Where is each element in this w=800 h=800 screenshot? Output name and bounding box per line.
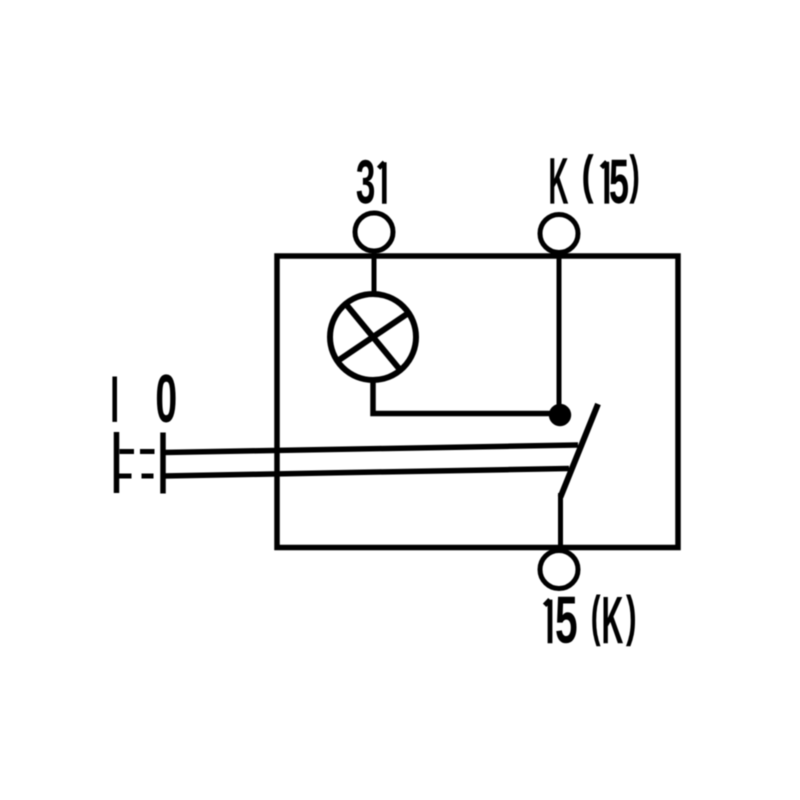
dashed link upper row dash 1 <box>120 449 135 454</box>
terminal 15 (K) <box>540 551 578 589</box>
switch body outline (box) <box>277 256 678 548</box>
terminal 31 <box>355 213 393 251</box>
dashed link lower row dash 1 <box>118 474 132 479</box>
dashed link lower row dash 2 <box>142 474 154 479</box>
dashed link upper row dash 2 <box>140 449 155 454</box>
switch blade <box>561 404 599 497</box>
lamp cross stroke A <box>345 303 400 370</box>
actuator label I <box>112 377 117 422</box>
wire: lamp to junction (elbow) <box>373 380 560 414</box>
label K (15) <box>550 154 638 204</box>
lamp circle <box>330 294 416 380</box>
wire: terminal 31 to lamp <box>372 250 377 294</box>
actuator left bar (position I) <box>114 432 120 493</box>
push-rod lower line to blade <box>163 469 569 477</box>
label 15 (K) <box>545 595 635 647</box>
label 31 <box>357 160 385 204</box>
lamp cross stroke B <box>337 313 409 362</box>
wire: blade pivot to terminal 15 (K) <box>558 493 563 550</box>
junction node (solid dot) <box>549 404 571 426</box>
push-rod upper line to blade <box>163 445 578 453</box>
actuator label 0 <box>157 374 176 422</box>
terminal K (15) <box>540 215 578 253</box>
wire: terminal K (15) down to junction <box>557 251 562 412</box>
actuator right bar (position 0) <box>160 433 166 494</box>
